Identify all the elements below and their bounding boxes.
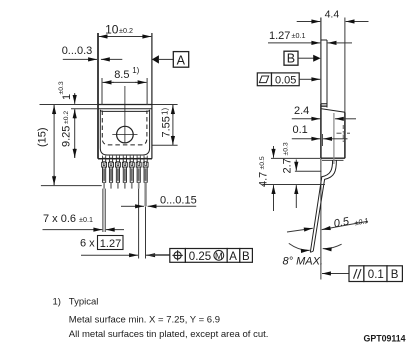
svg-text:±0.3: ±0.3 <box>58 81 65 94</box>
package right edge <box>151 33 153 159</box>
svg-text:GPT09114: GPT09114 <box>364 333 406 343</box>
package left edge <box>97 33 99 159</box>
dimension: 9.25 +-0.2 <box>61 109 75 158</box>
svg-text:±0.5: ±0.5 <box>259 156 266 169</box>
dimension: 7.55 1) <box>153 105 178 146</box>
front face line <box>320 18 322 105</box>
body top slant <box>322 109 345 113</box>
dimension: 0...0.15 <box>121 182 197 206</box>
svg-text:0.1: 0.1 <box>293 124 308 136</box>
datum A flag <box>152 52 189 68</box>
crosshair horizontal <box>112 134 137 136</box>
dimension: 1.27 +-0.1 <box>268 30 352 43</box>
dimension: 6 x 1.27 <box>80 189 170 259</box>
svg-text:2.7: 2.7 <box>281 158 293 173</box>
dash-dot index cross <box>337 125 351 143</box>
serration hatch <box>321 103 328 105</box>
mounting hole circle <box>117 126 134 143</box>
lead 1 <box>102 156 107 189</box>
svg-text:±0.2: ±0.2 <box>63 111 70 124</box>
dimension: 2.4 <box>292 105 356 119</box>
svg-text:B: B <box>287 52 295 66</box>
lead 5 <box>129 156 134 189</box>
8 deg angle arcs <box>283 243 342 267</box>
svg-text:8° MAX.: 8° MAX. <box>283 256 323 268</box>
svg-text:0...0.15: 0...0.15 <box>160 194 197 206</box>
front plane extension down <box>320 158 322 279</box>
dimension: 7 x 0.6 +-0.1 <box>43 189 125 232</box>
tab back <box>326 40 328 108</box>
lead 7 <box>143 156 148 189</box>
svg-text:1): 1) <box>132 66 139 75</box>
svg-text:0.25: 0.25 <box>189 251 211 263</box>
body bottom <box>321 157 345 159</box>
back line <box>344 18 346 113</box>
svg-text:A: A <box>229 251 237 263</box>
svg-text:±0.1: ±0.1 <box>79 215 93 224</box>
svg-text:0...0.3: 0...0.3 <box>62 45 93 57</box>
svg-text:Metal surface min. X = 7.25, Y: Metal surface min. X = 7.25, Y = 6.9 <box>69 314 220 325</box>
svg-text:1.27: 1.27 <box>100 238 121 250</box>
svg-text:1): 1) <box>53 297 61 308</box>
svg-text:B: B <box>391 269 399 281</box>
dimension: 1 +-0.3 <box>40 81 99 109</box>
svg-text:7.55: 7.55 <box>160 116 172 137</box>
dimension: 0.1 <box>292 124 348 146</box>
svg-text:1.27: 1.27 <box>269 30 290 42</box>
svg-text:7 x 0.6: 7 x 0.6 <box>43 213 76 225</box>
dimension: 8.5 1) <box>102 66 147 105</box>
body bottom edge overdraw <box>98 158 152 160</box>
dimension: (15) <box>36 105 101 186</box>
M circle <box>214 250 224 260</box>
dimension: 4.4 <box>297 9 369 22</box>
hidden tab dashed outline <box>102 111 147 145</box>
svg-text:0.05: 0.05 <box>275 74 296 86</box>
svg-text:8.5: 8.5 <box>114 69 129 81</box>
svg-text:6 x: 6 x <box>80 238 95 250</box>
front panel rounded outline <box>100 110 149 155</box>
center line vertical <box>124 86 126 144</box>
svg-text:Typical: Typical <box>69 297 99 308</box>
svg-text:0.1: 0.1 <box>368 269 384 281</box>
dimension: 2.7 +-0.3 <box>281 142 296 208</box>
parallelism frame // 0.1 B <box>322 266 402 282</box>
dimension: 0.5 +-0.1 (slanted) <box>287 215 369 232</box>
feature control frame: position 0.25 M A B <box>151 249 252 263</box>
svg-text:A: A <box>177 53 186 67</box>
tab top <box>321 39 327 41</box>
lead gray core in side view <box>333 113 335 164</box>
svg-text:2.4: 2.4 <box>294 105 309 117</box>
body top edge <box>98 108 152 110</box>
svg-text:±0.1: ±0.1 <box>292 31 306 40</box>
ext lines left of side view <box>262 158 325 184</box>
svg-text:±0.3: ±0.3 <box>282 142 289 155</box>
svg-text:1): 1) <box>161 108 170 115</box>
svg-text:10: 10 <box>105 22 119 36</box>
lead 2 <box>109 156 114 189</box>
dimension: 4.7 +-0.5 <box>257 146 273 211</box>
datum B flag <box>284 51 321 65</box>
dimension: 10 +-0.2 <box>99 22 152 36</box>
side lead bend <box>310 160 336 252</box>
svg-text:4.4: 4.4 <box>325 9 340 21</box>
tab top edge <box>97 104 152 106</box>
body bottom edge <box>98 158 152 160</box>
svg-text:±0.2: ±0.2 <box>119 26 133 35</box>
svg-text:9.25: 9.25 <box>61 126 73 147</box>
lead 4 <box>122 156 127 189</box>
position symbol <box>174 252 181 259</box>
flatness frame 0.05 <box>257 73 320 86</box>
svg-text:All metal surfaces tin plated,: All metal surfaces tin plated, except ar… <box>69 329 269 340</box>
svg-text:(15): (15) <box>36 127 48 147</box>
svg-text:B: B <box>242 251 250 263</box>
svg-text:M: M <box>215 251 223 262</box>
dimension: 0...0.3 <box>62 45 123 59</box>
lead 3 <box>115 156 120 189</box>
svg-text:4.7: 4.7 <box>257 172 269 187</box>
lead 6 <box>136 156 141 189</box>
